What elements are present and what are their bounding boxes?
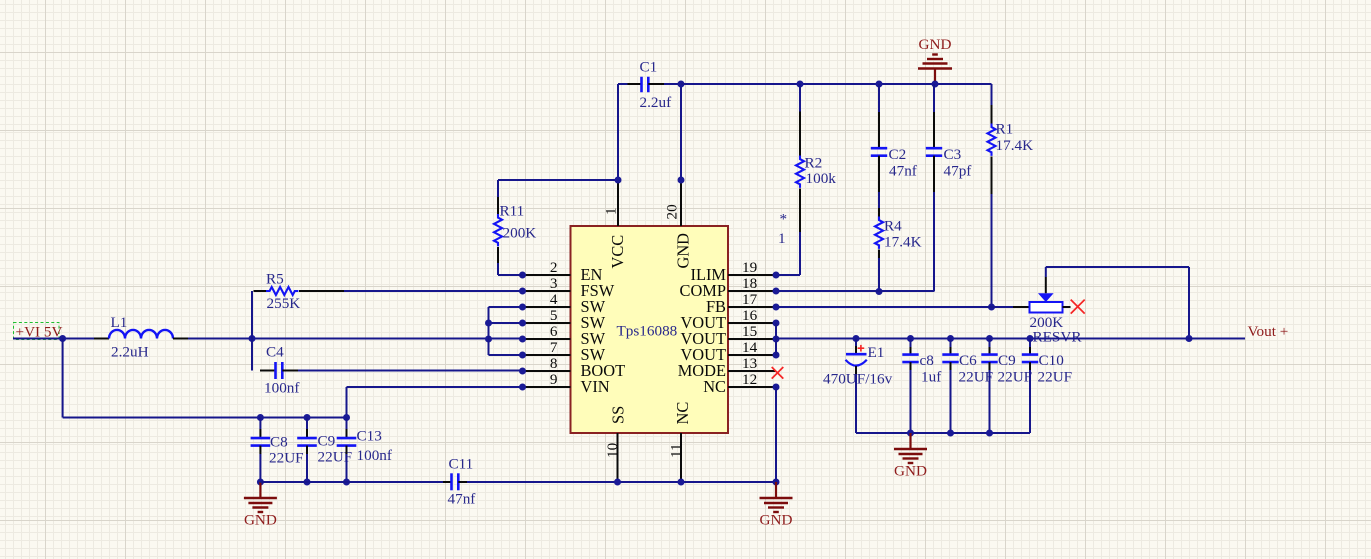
ground GND bottom: [760, 482, 793, 529]
wire R2 to ILIM: [776, 232, 800, 275]
svg-text:C4: C4: [266, 344, 284, 361]
junction top bus C8: [257, 414, 264, 421]
label 2.2uf value of C1: [640, 94, 673, 111]
resistor R2 lead bottom: [799, 189, 801, 233]
wire EN riser: [498, 263, 523, 275]
junction left pin VIN: [519, 384, 526, 391]
capacitor C6: [942, 355, 958, 363]
svg-text:c8: c8: [920, 352, 935, 369]
label C3: [944, 146, 962, 163]
capacitor C4 lead left: [260, 370, 276, 372]
svg-text:NC: NC: [703, 377, 726, 396]
label 22UF value of C8: [269, 450, 304, 467]
label C10: [1039, 352, 1065, 369]
capacitor C10 lead top: [1029, 339, 1031, 355]
capacitor C9 lead top: [306, 418, 308, 439]
pin 3 FSW: [523, 275, 615, 300]
pin 7 SW: [523, 339, 606, 364]
junction SS: [614, 479, 621, 486]
label C2: [889, 146, 907, 163]
capacitor C9: [297, 438, 317, 446]
svg-text:R5: R5: [266, 271, 284, 288]
svg-text:RESVR: RESVR: [1033, 329, 1083, 346]
junction vout C6: [947, 335, 954, 342]
wire SW bus: [489, 307, 523, 355]
junction left pin SW6: [519, 336, 526, 343]
svg-text:17.4K: 17.4K: [884, 234, 922, 251]
junction left pin FSW: [519, 288, 526, 295]
wire R11 top: [498, 180, 618, 197]
pin 16 VOUT: [680, 307, 776, 332]
inductor L1 lead left: [94, 338, 109, 340]
svg-text:GND: GND: [244, 512, 277, 529]
capacitor C9 lead bottom: [306, 446, 308, 482]
junction vout C10: [1027, 335, 1034, 342]
wire L1 to SW: [188, 338, 523, 340]
label 100nf value of C13: [357, 447, 393, 464]
svg-text:C3: C3: [944, 146, 962, 163]
label R11: [500, 203, 525, 220]
svg-text:17.4K: 17.4K: [996, 137, 1034, 154]
pin 4 SW: [523, 291, 606, 316]
label 22UF value of C6: [959, 369, 994, 386]
wire C2 to R4: [878, 192, 880, 208]
svg-text:6: 6: [550, 323, 558, 340]
wire VCC riser: [618, 84, 628, 180]
wire C1 right: [664, 83, 681, 85]
svg-text:2.2uf: 2.2uf: [640, 94, 673, 111]
label E1: [868, 344, 885, 361]
svg-text:C2: C2: [889, 146, 907, 163]
junction cap bus: [986, 430, 993, 437]
svg-text:1: 1: [603, 207, 620, 215]
pin 13 MODE: [678, 355, 776, 380]
pin 8 BOOT: [523, 355, 626, 380]
capacitor E1 (polarized): [846, 345, 867, 366]
wire R5/C4 riser: [251, 291, 253, 371]
label R1: [996, 121, 1014, 138]
pin 15 VOUT: [680, 323, 776, 348]
IC name label: [617, 323, 678, 340]
label 17.4K value of R4: [884, 234, 922, 251]
capacitor C1 lead right: [648, 83, 664, 85]
label RESVR: [1033, 329, 1083, 346]
wire C3 top: [933, 84, 935, 112]
resistor R5 lead right: [299, 290, 344, 292]
wire VOUT rail: [776, 338, 1245, 340]
wire R2 top: [799, 84, 801, 112]
junction input node: [59, 335, 66, 342]
svg-text:E1: E1: [868, 344, 885, 361]
capacitor C10 lead bottom: [1029, 362, 1031, 433]
annotation * 1: [778, 211, 787, 248]
label C6: [959, 352, 977, 369]
junction NC11: [678, 479, 685, 486]
wire VOUT pin bus: [775, 323, 777, 355]
ground GND left: [244, 482, 277, 529]
svg-text:C6: C6: [959, 352, 977, 369]
capacitor E1 lead bottom: [855, 366, 857, 433]
wire VIN riser: [347, 387, 523, 418]
label 200K value of R11: [503, 225, 537, 242]
capacitor C3 lead top: [933, 112, 935, 149]
svg-text:7: 7: [550, 339, 558, 356]
label 22UF value of C9: [998, 369, 1033, 386]
wire R4 to COMP: [878, 258, 880, 292]
capacitor C3: [926, 148, 942, 156]
capacitor C6 lead bottom: [950, 362, 952, 433]
wire pin20 riser: [680, 84, 682, 180]
capacitor C9 lead bottom: [989, 362, 991, 433]
capacitor C8 lead top: [259, 418, 261, 439]
svg-text:5: 5: [550, 307, 558, 324]
wire R5 to FSW: [344, 290, 523, 292]
svg-text:22UF: 22UF: [998, 369, 1033, 386]
junction vout E1: [853, 335, 860, 342]
label L1: [111, 314, 128, 331]
net label Vout +: [1248, 323, 1289, 340]
junction R5/C4 riser on input: [249, 335, 256, 342]
capacitor C8 lead bottom: [259, 446, 261, 482]
label 100k value of R2: [806, 170, 837, 187]
label 100nf value of C4: [264, 380, 300, 397]
junction right pin VOUT14: [773, 352, 780, 359]
capacitor C10: [1022, 355, 1038, 363]
capacitor C13: [337, 438, 357, 446]
junction top bus C13: [343, 414, 350, 421]
svg-text:255K: 255K: [267, 295, 301, 312]
potentiometer RESVR lead right: [1063, 306, 1071, 308]
label C8: [270, 434, 288, 451]
label 22UF value of C10: [1038, 369, 1073, 386]
inductor L1: [109, 330, 173, 339]
junction wiper on vout: [1186, 335, 1193, 342]
resistor R5: [266, 287, 298, 295]
ground GND top symbol: [918, 36, 952, 84]
label 22UF value of C9: [318, 449, 353, 466]
wire bottom bus left: [260, 481, 443, 483]
pin 5 SW: [523, 307, 606, 332]
pin 10 SS: [604, 406, 628, 482]
junction input/SW-bus: [485, 336, 492, 343]
junction COMP R4: [876, 288, 883, 295]
svg-text:12: 12: [742, 371, 757, 388]
label c8: [920, 352, 935, 369]
svg-text:100k: 100k: [806, 170, 837, 187]
capacitor c8 lead top: [910, 339, 912, 355]
junction right pin VOUT15: [773, 336, 780, 343]
junction vout c8: [907, 335, 914, 342]
svg-text:Vout +: Vout +: [1248, 323, 1289, 340]
svg-text:C10: C10: [1039, 352, 1065, 369]
capacitor C2: [871, 148, 887, 156]
svg-text:GND: GND: [760, 512, 793, 529]
junction right pin COMP: [773, 288, 780, 295]
svg-text:10: 10: [604, 442, 621, 458]
svg-text:18: 18: [742, 275, 758, 292]
junction left pin BOOT: [519, 368, 526, 375]
wire R1 top: [991, 84, 993, 105]
svg-text:200K: 200K: [503, 225, 537, 242]
resistor R11 lead top: [497, 197, 499, 214]
wire C2 top: [878, 84, 880, 112]
svg-text:47nf: 47nf: [889, 162, 918, 179]
svg-text:15: 15: [742, 323, 757, 340]
junction right pin VOUT16: [773, 320, 780, 327]
svg-text:19: 19: [742, 259, 757, 276]
svg-text:17: 17: [742, 291, 758, 308]
svg-text:100nf: 100nf: [357, 447, 393, 464]
wire FB net: [776, 306, 1013, 308]
wire C4 to BOOT: [298, 370, 523, 372]
junction right pin ILIM: [773, 272, 780, 279]
pin 11 NC: [668, 402, 693, 482]
wire COMP net: [776, 290, 934, 292]
junction top C2: [876, 81, 883, 88]
junction top GND/C3: [932, 81, 939, 88]
svg-text:2: 2: [550, 259, 558, 276]
label 47nf value of C11: [448, 491, 477, 508]
junction left pin SW7: [519, 352, 526, 359]
op-amp U1 Tps16088 body: [571, 226, 729, 433]
wire input node down: [62, 339, 64, 418]
junction right pin FB: [773, 304, 780, 311]
label 470UF/16v value of E1: [823, 370, 893, 387]
capacitor C6 lead top: [950, 339, 952, 355]
wire input to L1: [13, 338, 94, 340]
potentiometer wiper lead: [1045, 277, 1047, 293]
resistor R4: [875, 217, 883, 249]
junction pin20 bottom: [678, 177, 685, 184]
capacitor c8 lead bottom: [910, 362, 912, 433]
capacitor C11 lead right: [458, 481, 467, 483]
pin 12 NC: [703, 371, 776, 396]
label C11: [449, 456, 474, 473]
label C4: [266, 344, 284, 361]
svg-text:SS: SS: [609, 406, 628, 424]
capacitor C4: [276, 362, 283, 379]
svg-text:C9: C9: [318, 433, 336, 450]
junction bottom bus C13: [343, 479, 350, 486]
svg-text:GND: GND: [919, 36, 952, 53]
label 47nf value of C2: [889, 162, 918, 179]
wire top gnd net: [681, 83, 992, 85]
capacitor C11: [452, 473, 459, 490]
svg-text:R11: R11: [500, 203, 525, 220]
capacitor E1 lead top: [855, 339, 857, 354]
wire bottom bus right: [467, 481, 776, 483]
svg-text:C9: C9: [998, 352, 1016, 369]
capacitor C8: [251, 438, 271, 446]
svg-text:13: 13: [742, 355, 757, 372]
pin 18 COMP: [680, 275, 776, 300]
svg-text:470UF/16v: 470UF/16v: [823, 370, 893, 387]
wire pin12 riser: [775, 387, 777, 482]
wire R1 to FB: [991, 194, 993, 307]
no-ERC marker MODE: [772, 367, 784, 379]
capacitor C9: [981, 355, 997, 363]
svg-text:22UF: 22UF: [959, 369, 994, 386]
capacitor C2 lead top: [878, 112, 880, 149]
svg-text:GND: GND: [674, 233, 693, 269]
svg-text:1uf: 1uf: [921, 369, 942, 386]
svg-text:22UF: 22UF: [1038, 369, 1073, 386]
capacitor C4 lead right: [282, 370, 298, 372]
no-ERC marker pot right: [1071, 300, 1085, 314]
label 2.2uH: [111, 344, 149, 361]
junction vout C9: [986, 335, 993, 342]
svg-text:VIN: VIN: [581, 377, 610, 396]
capacitor C1 lead left: [628, 83, 642, 85]
pin 1 VCC: [603, 180, 628, 269]
svg-text:47nf: 47nf: [448, 491, 477, 508]
resistor R2: [796, 156, 804, 188]
svg-text:20: 20: [664, 204, 681, 220]
resistor R1: [988, 124, 996, 156]
junction pin20 top: [678, 81, 685, 88]
svg-text:Tps16088: Tps16088: [617, 323, 678, 340]
capacitor C9 lead top: [989, 339, 991, 355]
svg-text:L1: L1: [111, 314, 128, 331]
resistor R2 lead top: [799, 112, 801, 156]
junction cap bus: [947, 430, 954, 437]
label R4: [884, 218, 902, 235]
potentiometer RESVR: [1030, 293, 1063, 312]
junction left pin EN: [519, 272, 526, 279]
junction SW bus pin5: [485, 320, 492, 327]
junction top R2: [797, 81, 804, 88]
resistor R1 lead bottom: [991, 157, 993, 195]
svg-text:C8: C8: [270, 434, 288, 451]
svg-text:C13: C13: [357, 428, 382, 445]
capacitor C11 lead left: [443, 481, 452, 483]
potentiometer RESVR lead left: [1013, 306, 1030, 308]
junction left pin SW5: [519, 320, 526, 327]
svg-text:16: 16: [742, 307, 758, 324]
svg-text:47pf: 47pf: [944, 162, 973, 179]
svg-text:C1: C1: [640, 59, 658, 76]
wire wiper to vout: [1046, 267, 1189, 339]
junction bottom bus C8: [257, 479, 264, 486]
svg-text:9: 9: [550, 371, 558, 388]
svg-text:R1: R1: [996, 121, 1014, 138]
junction right pin NC12: [773, 384, 780, 391]
wire left cap bus top: [63, 417, 347, 419]
svg-text:2.2uH: 2.2uH: [111, 344, 149, 361]
svg-text:100nf: 100nf: [264, 380, 300, 397]
svg-text:GND: GND: [894, 463, 927, 480]
pin 2 EN: [523, 259, 603, 284]
pin 17 FB: [706, 291, 776, 316]
junction cap bus: [907, 430, 914, 437]
resistor R1 lead top: [991, 105, 993, 124]
junction pin12 corner: [773, 479, 780, 486]
ground GND output: [894, 433, 927, 480]
resistor R5 lead left: [254, 290, 267, 292]
pin 6 SW: [523, 323, 606, 348]
capacitor C13 lead top: [346, 418, 348, 439]
svg-text:11: 11: [668, 443, 685, 458]
label R2: [805, 154, 823, 171]
label 1uf value of c8: [921, 369, 942, 386]
pin 20 GND: [664, 180, 693, 269]
svg-text:R2: R2: [805, 154, 823, 171]
wire C3 to COMP: [933, 192, 935, 292]
svg-text:22UF: 22UF: [269, 450, 304, 467]
wire output cap bus: [856, 432, 1030, 434]
svg-text:3: 3: [550, 275, 558, 292]
label C13: [357, 428, 382, 445]
label 47pf value of C3: [944, 162, 973, 179]
capacitor C3 lead bottom: [933, 156, 935, 192]
svg-text:1: 1: [778, 230, 786, 247]
svg-text:8: 8: [550, 355, 558, 372]
inductor L1 lead right: [173, 338, 188, 340]
capacitor C2 lead bottom: [878, 156, 880, 192]
svg-text:14: 14: [742, 339, 758, 356]
resistor R11: [494, 214, 502, 246]
pin 9 VIN: [523, 371, 610, 396]
label C9: [318, 433, 336, 450]
junction top bus C9: [304, 414, 311, 421]
svg-text:NC: NC: [673, 402, 692, 425]
pin 14 VOUT: [680, 339, 776, 364]
svg-text:C11: C11: [449, 456, 474, 473]
net label +VI 5V: [14, 323, 63, 341]
resistor R11 lead bottom: [497, 247, 499, 263]
label C1: [640, 59, 658, 76]
svg-text:R4: R4: [884, 218, 902, 235]
junction VCC riser: [615, 177, 622, 184]
label 200K value of RESVR: [1030, 314, 1064, 331]
junction bottom bus C9: [304, 479, 311, 486]
capacitor C13 lead bottom: [346, 446, 348, 482]
label 255K: [267, 295, 301, 312]
label C9: [998, 352, 1016, 369]
junction FB R1: [988, 304, 995, 311]
resistor R4 lead top: [878, 208, 880, 217]
svg-text:VCC: VCC: [608, 235, 627, 269]
label R5: [266, 271, 284, 288]
svg-text:*: *: [780, 211, 788, 228]
svg-text:4: 4: [550, 291, 558, 308]
resistor R4 lead bottom: [878, 250, 880, 259]
junction left pin SW4: [519, 304, 526, 311]
capacitor C1: [642, 77, 649, 93]
pin 19 ILIM: [690, 259, 776, 284]
capacitor c8: [902, 355, 918, 363]
label 17.4K value of R1: [996, 137, 1034, 154]
